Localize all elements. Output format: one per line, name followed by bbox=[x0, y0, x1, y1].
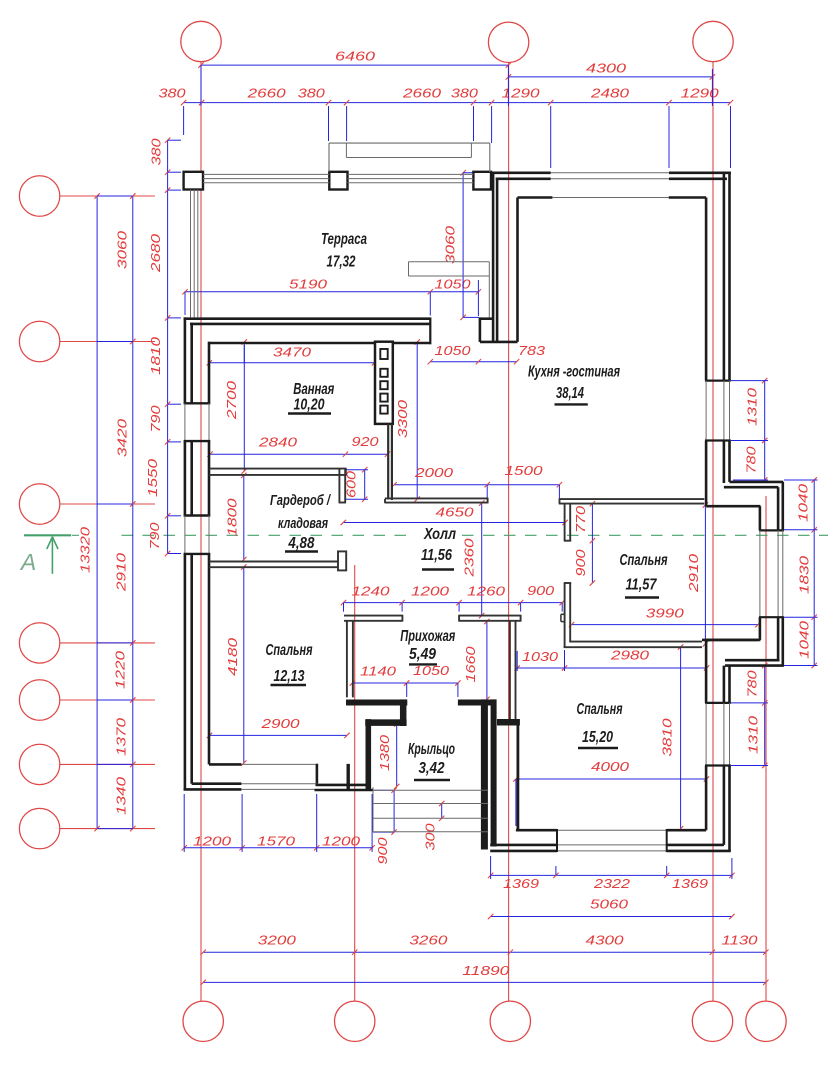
dim chain 1369/2322/1369 (south) bbox=[488, 856, 735, 891]
wall: bedroom2 south-east piece bbox=[702, 639, 758, 642]
dim 6460 (top) bbox=[198, 50, 511, 68]
window W3 (bedroom1 south) bbox=[241, 764, 315, 789]
wall: bay north band bbox=[724, 482, 783, 487]
wall: bay east inner upper bbox=[759, 506, 762, 530]
svg-text:Терраса: Терраса bbox=[321, 231, 367, 248]
window W7 (bedroom3 east) bbox=[706, 703, 729, 766]
room label Terrasa bbox=[321, 231, 367, 271]
wall: kitchen west band bbox=[493, 173, 497, 342]
partition: bedroom1 east bbox=[347, 621, 353, 697]
wall: bedroom3 east inner lower bbox=[705, 766, 708, 831]
svg-text:3420: 3420 bbox=[116, 419, 130, 457]
svg-text:2360: 2360 bbox=[462, 538, 476, 577]
svg-text:2900: 2900 bbox=[260, 717, 299, 731]
axis circle left 4 bbox=[19, 623, 59, 663]
dim extension 3060k bbox=[463, 173, 492, 318]
axis leader left 7 bbox=[60, 828, 155, 830]
svg-text:Прихожая: Прихожая bbox=[400, 628, 455, 645]
porch steps bbox=[373, 787, 488, 831]
wall: kitchen east band lower bbox=[724, 441, 730, 484]
section label A bbox=[19, 549, 36, 575]
window W1 (left) bbox=[185, 403, 209, 441]
svg-text:1030: 1030 bbox=[522, 650, 558, 664]
wall: kitchen east inner lower bbox=[705, 441, 708, 507]
svg-text:4650: 4650 bbox=[436, 506, 474, 520]
svg-text:13320: 13320 bbox=[78, 527, 92, 573]
dim extension lines left bbox=[97, 140, 181, 828]
svg-text:300: 300 bbox=[423, 823, 437, 850]
svg-text:38,14: 38,14 bbox=[556, 385, 584, 402]
svg-text:1200: 1200 bbox=[322, 834, 360, 848]
partition: bedrooms 2/3 bbox=[564, 642, 702, 648]
svg-text:1050: 1050 bbox=[435, 278, 471, 292]
svg-text:11890: 11890 bbox=[462, 964, 509, 978]
section arrow A bbox=[47, 537, 58, 574]
dim 3810 (bedroom3 height) bbox=[661, 644, 684, 831]
wall: hallway south east bbox=[458, 700, 494, 706]
pier A cap bbox=[184, 402, 211, 404]
svg-text:Спальня: Спальня bbox=[620, 552, 668, 569]
partition: hall south west piece bbox=[344, 615, 402, 622]
window W7 cap bottom bbox=[705, 764, 731, 766]
wall: bedroom3 south inner bbox=[516, 829, 706, 832]
room label Spalnya3 bbox=[577, 701, 623, 748]
dim 770/900 (bedroom2 door) bbox=[574, 501, 595, 586]
wall: left outer line pier A bbox=[184, 317, 187, 403]
svg-text:1050: 1050 bbox=[435, 344, 471, 358]
entrance steps (top porch) bbox=[329, 143, 490, 172]
svg-text:4300: 4300 bbox=[586, 62, 626, 76]
wall: bay south inner bbox=[706, 639, 760, 642]
dim 1140/1050 (porch top) bbox=[350, 664, 461, 697]
dim 3470 (bathroom width) bbox=[207, 346, 378, 366]
svg-text:1800: 1800 bbox=[226, 498, 240, 536]
axis circle bottom 2 bbox=[335, 1001, 375, 1041]
room label Garderob bbox=[270, 493, 332, 552]
door jamb terrace door bbox=[429, 318, 431, 345]
wall: bedroom3 east band lower bbox=[724, 766, 730, 851]
axis leader left 5 bbox=[60, 699, 155, 701]
svg-text:1130: 1130 bbox=[722, 934, 758, 948]
partition: closet east bbox=[339, 469, 346, 503]
svg-text:1310: 1310 bbox=[746, 388, 760, 426]
wall: bay east band lower bbox=[778, 617, 783, 665]
dim extension 5190 bbox=[185, 280, 478, 316]
dim 1380 (porch west wall) bbox=[378, 721, 399, 789]
axis line 1 (x=201) bbox=[200, 62, 202, 1001]
wall: bay east inner lower bbox=[759, 617, 762, 640]
dim ext 3470 bbox=[209, 345, 244, 363]
svg-text:3060: 3060 bbox=[116, 231, 130, 269]
svg-text:380: 380 bbox=[159, 87, 186, 101]
axis circle left 3 bbox=[19, 484, 59, 524]
wall: kitchen step foot bbox=[480, 317, 518, 342]
svg-text:3300: 3300 bbox=[396, 400, 410, 438]
wall: kitchen east inner upper bbox=[705, 198, 708, 381]
svg-text:А: А bbox=[19, 549, 36, 575]
wall: kitchen east band upper bbox=[724, 172, 730, 381]
window W6 (bay) bbox=[760, 530, 783, 617]
wall: bedroom3 east inner upper bbox=[705, 640, 708, 703]
svg-text:Ванная: Ванная bbox=[293, 381, 334, 398]
svg-text:790: 790 bbox=[149, 405, 163, 432]
svg-text:1040: 1040 bbox=[798, 621, 812, 659]
dim 2000/1500 (hall top) bbox=[392, 464, 563, 499]
dim chain bottom wall 1200/1570/1200 bbox=[182, 794, 375, 852]
room label Krylco bbox=[408, 741, 455, 780]
wall: porch step down bbox=[400, 699, 407, 726]
wall: shaft-hall wall bbox=[388, 424, 392, 500]
axis circle left 7 bbox=[19, 808, 59, 848]
column K1 bbox=[184, 172, 203, 190]
dim chain top 380/2660/380/2660/380/1290/2480/1290 bbox=[159, 87, 734, 106]
svg-text:1220: 1220 bbox=[113, 651, 127, 689]
svg-text:4,88: 4,88 bbox=[288, 535, 315, 552]
wall: hallway south west bbox=[346, 700, 407, 706]
svg-text:3,42: 3,42 bbox=[419, 760, 445, 777]
svg-text:3810: 3810 bbox=[661, 718, 675, 756]
wall: bay north inner bbox=[706, 505, 760, 508]
dim 1800 (closet) bbox=[226, 473, 247, 563]
wall: house top inner face bbox=[208, 342, 430, 345]
svg-text:1570: 1570 bbox=[257, 834, 295, 848]
dim 900 (porch steps) bbox=[373, 788, 397, 865]
svg-text:1290: 1290 bbox=[681, 87, 719, 101]
svg-text:1810: 1810 bbox=[149, 337, 163, 375]
svg-text:2322: 2322 bbox=[593, 877, 630, 891]
axis leader left 6 bbox=[60, 763, 155, 765]
svg-text:2700: 2700 bbox=[225, 381, 239, 420]
wall: bay south band bbox=[725, 660, 784, 665]
axis circle left 2 bbox=[19, 321, 59, 361]
dim chain hall south 1240/1200/1260/900 bbox=[341, 584, 565, 612]
axis circle left 1 bbox=[19, 176, 59, 216]
wall: left outer pier C bbox=[184, 554, 187, 791]
column K2 bbox=[329, 172, 347, 190]
pier B top cap bbox=[184, 440, 211, 442]
wall: bedroom3 east band upper bbox=[724, 666, 730, 703]
terrace railing top bbox=[203, 174, 473, 182]
dim 300 (step) bbox=[423, 801, 444, 851]
dim chain left wall 380/2680/1810/790/1550/790 bbox=[146, 138, 170, 557]
bay window jamb top bbox=[759, 529, 784, 531]
svg-text:6460: 6460 bbox=[335, 50, 375, 64]
svg-text:2980: 2980 bbox=[610, 649, 649, 663]
partition: closet north bbox=[209, 468, 346, 476]
window W5 cap bottom bbox=[705, 439, 731, 441]
wall: kitchen north outer right bbox=[669, 173, 731, 179]
svg-text:1260: 1260 bbox=[467, 585, 505, 599]
wall: bedroom1 south outer bbox=[184, 788, 242, 791]
svg-text:2660: 2660 bbox=[246, 87, 285, 101]
svg-text:3260: 3260 bbox=[409, 934, 447, 948]
axis circle left 6 bbox=[19, 744, 59, 784]
svg-text:4000: 4000 bbox=[591, 760, 629, 774]
wall: kitchen north outer bbox=[492, 173, 551, 179]
svg-text:770: 770 bbox=[574, 506, 588, 533]
axis circle left 5 bbox=[19, 680, 59, 720]
dim 1040/1830/1040 (right bay) bbox=[797, 477, 817, 668]
axis circle top 2 bbox=[488, 22, 528, 62]
svg-text:1500: 1500 bbox=[505, 464, 543, 478]
pier B bottom cap bbox=[184, 514, 211, 516]
wall: house top outer band bbox=[184, 319, 431, 324]
window W4 (kitchen north) bbox=[551, 173, 669, 198]
room label Kuhnya bbox=[528, 364, 620, 405]
wall: bedroom1 south inner bbox=[209, 763, 241, 766]
room label Spalnya2 bbox=[620, 552, 668, 598]
window W5 (kitchen east) bbox=[706, 381, 729, 441]
svg-text:1200: 1200 bbox=[193, 834, 231, 848]
wall: bedroom3 south band bbox=[490, 844, 724, 847]
svg-text:920: 920 bbox=[352, 435, 379, 449]
dim 2700 (bathroom height) bbox=[225, 339, 247, 473]
svg-text:2480: 2480 bbox=[590, 87, 629, 101]
svg-text:3200: 3200 bbox=[258, 934, 296, 948]
dim 4000 (bedroom3 width) bbox=[513, 760, 709, 826]
svg-text:1050: 1050 bbox=[413, 664, 449, 678]
wall: bedroom3 west inner bbox=[517, 719, 520, 830]
svg-text:Гардероб /: Гардероб / bbox=[270, 493, 332, 509]
svg-text:380: 380 bbox=[451, 87, 478, 101]
svg-text:11,57: 11,57 bbox=[626, 577, 658, 594]
svg-text:1380: 1380 bbox=[378, 735, 392, 771]
window W7 cap top bbox=[705, 702, 731, 704]
svg-text:1660: 1660 bbox=[464, 646, 478, 682]
svg-text:2910: 2910 bbox=[687, 554, 701, 593]
svg-text:5060: 5060 bbox=[590, 898, 628, 912]
svg-text:783: 783 bbox=[518, 344, 545, 358]
svg-text:1369: 1369 bbox=[672, 877, 708, 891]
axis circle top 3 bbox=[693, 21, 733, 61]
svg-text:1140: 1140 bbox=[360, 665, 396, 679]
svg-text:12,13: 12,13 bbox=[274, 668, 305, 685]
dim 1030/2980 (bedroom3 top) bbox=[515, 649, 710, 672]
wall: bedroom3 west ledge bbox=[497, 719, 520, 726]
vent shaft bbox=[375, 342, 393, 424]
dim 5190/1050 (terrace) bbox=[182, 278, 481, 295]
svg-text:Холл: Холл bbox=[423, 526, 456, 543]
svg-text:1340: 1340 bbox=[115, 777, 129, 815]
svg-text:4180: 4180 bbox=[226, 638, 240, 676]
wall: kitchen west inner bbox=[516, 198, 519, 342]
svg-text:2680: 2680 bbox=[149, 234, 163, 273]
axis line 5 (x=766) bbox=[765, 496, 767, 1001]
wall: left band2 pier A bbox=[190, 323, 193, 404]
partition: bedroom2 north bbox=[560, 498, 705, 504]
axis leader left 2 bbox=[60, 341, 155, 343]
dim 4650 (hall width) bbox=[341, 506, 568, 526]
axis circle bottom 5 bbox=[746, 1001, 786, 1041]
axis line 2 (x=508.6) bbox=[508, 63, 510, 1002]
svg-text:кладовая: кладовая bbox=[278, 516, 328, 532]
wall: left band2 pier B bbox=[190, 441, 193, 515]
partition: hall north bbox=[385, 498, 488, 504]
dim 2360 (hall height) bbox=[462, 500, 484, 618]
dim 780/1310 (right lower) bbox=[746, 663, 768, 768]
dim 3060 (kitchen west) bbox=[444, 170, 466, 320]
wall: porch west foot bbox=[347, 764, 350, 791]
terrace railing left bbox=[191, 190, 198, 318]
svg-text:1370: 1370 bbox=[115, 718, 129, 756]
wall: kitchen north inner bbox=[518, 196, 707, 199]
svg-text:1369: 1369 bbox=[503, 877, 539, 891]
svg-text:Спальня: Спальня bbox=[577, 701, 623, 718]
window W5 cap top bbox=[705, 380, 731, 382]
axis line 3 (x=713) bbox=[712, 62, 714, 1001]
wall: bedroom1 south band bbox=[192, 782, 242, 785]
window W8 jambs bbox=[557, 829, 667, 852]
partition: closet door jamb T bbox=[338, 551, 346, 570]
dim 2910 (bedroom2 height) bbox=[687, 502, 708, 646]
svg-text:380: 380 bbox=[150, 138, 164, 165]
svg-text:780: 780 bbox=[746, 670, 760, 697]
room label Vannaya bbox=[288, 381, 334, 414]
svg-text:3060: 3060 bbox=[444, 226, 458, 264]
svg-text:380: 380 bbox=[298, 87, 325, 101]
wall: bay east band upper bbox=[778, 482, 783, 531]
axis circle bottom 4 bbox=[692, 1001, 732, 1041]
svg-text:11,56: 11,56 bbox=[421, 547, 452, 564]
svg-text:1550: 1550 bbox=[146, 459, 160, 497]
svg-text:1290: 1290 bbox=[502, 87, 540, 101]
dim 1660 (hallway height) bbox=[464, 619, 490, 702]
room label Prihozhaya bbox=[400, 628, 455, 664]
svg-text:10,20: 10,20 bbox=[294, 397, 325, 414]
axis circle bottom 1 bbox=[183, 1001, 223, 1041]
axis leader left 1 bbox=[60, 195, 155, 197]
room label Spalnya1 bbox=[266, 642, 313, 685]
dim 4300 (top) bbox=[506, 62, 715, 80]
room label Holl bbox=[421, 526, 456, 570]
dim 1050/783 (kitchen door) bbox=[428, 344, 545, 364]
column K3 bbox=[473, 172, 491, 190]
dim 4180 (bedroom1 height) bbox=[226, 564, 247, 766]
partition: bedroom2 west bbox=[564, 504, 571, 647]
dim 13320 (left) bbox=[78, 193, 100, 831]
svg-text:1830: 1830 bbox=[798, 556, 812, 594]
dim 2900 (bedroom1 width) bbox=[207, 717, 350, 762]
partition: hallway east bbox=[510, 621, 516, 719]
axis line 4 (x=354.7) bbox=[354, 565, 356, 1001]
pier C top cap bbox=[184, 553, 211, 555]
svg-text:790: 790 bbox=[148, 522, 162, 549]
wall: porch north ledge bbox=[365, 719, 406, 726]
svg-text:Кухня -гостиная: Кухня -гостиная bbox=[528, 364, 620, 381]
dim 600 (closet door) bbox=[345, 467, 369, 502]
svg-text:5190: 5190 bbox=[289, 278, 327, 292]
svg-text:Крыльцо: Крыльцо bbox=[408, 741, 455, 758]
axis circle bottom 3 bbox=[490, 1001, 530, 1041]
wall: left outer pier B bbox=[184, 441, 187, 515]
partition: closet south bbox=[209, 562, 338, 568]
wall: left band2 pier C bbox=[190, 554, 193, 784]
svg-text:2910: 2910 bbox=[114, 553, 128, 592]
svg-text:1310: 1310 bbox=[747, 716, 761, 754]
svg-text:2660: 2660 bbox=[402, 87, 441, 101]
svg-text:1240: 1240 bbox=[352, 585, 390, 599]
dim 1310/780 (right upper) bbox=[745, 378, 768, 483]
svg-text:4300: 4300 bbox=[586, 934, 624, 948]
axis leader left 3 bbox=[60, 503, 155, 505]
dim 3300 (bath-hall height) bbox=[396, 339, 420, 502]
dim chain bottom 3200/3260/4300/1130 bbox=[201, 934, 769, 955]
wall: porch east band bbox=[484, 699, 493, 849]
dim 11890 (bottom) bbox=[201, 964, 769, 985]
bay window jamb bottom bbox=[759, 616, 784, 618]
axis leader left 4 bbox=[60, 642, 155, 644]
svg-text:17,32: 17,32 bbox=[327, 254, 356, 271]
svg-text:15,20: 15,20 bbox=[582, 729, 613, 746]
wall: bedroom3 south outer bbox=[490, 850, 731, 853]
dim chain left axes 3060/3420/2910/1220/1370/1340 bbox=[113, 193, 135, 831]
dim 2840/920 (bath bottom) bbox=[207, 435, 390, 457]
wall: porch west bbox=[365, 719, 371, 790]
window W8 (bedroom3 south) bbox=[557, 830, 667, 851]
wall: bedroom1 south step bbox=[315, 764, 374, 790]
svg-text:900: 900 bbox=[574, 549, 588, 576]
svg-text:Спальня: Спальня bbox=[266, 642, 313, 659]
dim extension lines top bbox=[184, 65, 731, 168]
wall: left inner pier A bbox=[208, 342, 211, 404]
axis circle top 1 bbox=[181, 21, 221, 61]
svg-text:780: 780 bbox=[745, 446, 759, 473]
wall: left inner pier B bbox=[208, 441, 211, 515]
dim 3990 (bedroom2 width) bbox=[569, 607, 761, 628]
svg-text:3990: 3990 bbox=[646, 607, 684, 621]
wall: left inner pier C bbox=[208, 554, 211, 765]
svg-text:2000: 2000 bbox=[414, 466, 453, 480]
svg-text:900: 900 bbox=[376, 837, 390, 864]
svg-text:5,49: 5,49 bbox=[409, 646, 436, 663]
svg-text:1040: 1040 bbox=[797, 484, 811, 522]
dim 5060 (south) bbox=[488, 898, 735, 920]
svg-text:900: 900 bbox=[527, 584, 554, 598]
dim extension lines right bbox=[731, 381, 818, 766]
section line A-A (green dashed centerline) bbox=[24, 534, 828, 536]
terrace east step bbox=[409, 262, 490, 318]
svg-text:3470: 3470 bbox=[273, 346, 311, 360]
partition: hall south east stub (notch) bbox=[561, 614, 564, 621]
svg-text:1200: 1200 bbox=[411, 585, 449, 599]
partition: hall south mid piece bbox=[459, 615, 520, 622]
window W2 (left) bbox=[185, 516, 209, 554]
svg-text:2840: 2840 bbox=[258, 436, 297, 450]
